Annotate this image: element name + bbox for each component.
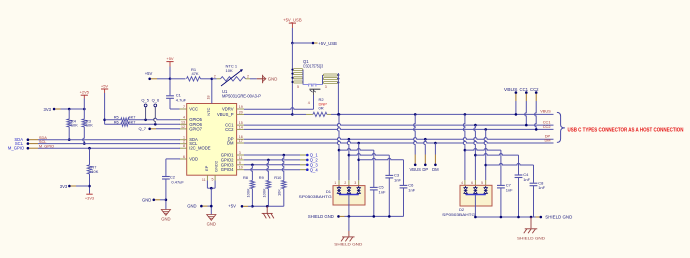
svg-text:3V3: 3V3 — [60, 184, 68, 189]
svg-text:VBUS: VBUS — [409, 167, 421, 172]
svg-text:3: 3 — [354, 181, 356, 185]
svg-text:EP: EP — [204, 165, 209, 171]
svg-text:SHIELD GND: SHIELD GND — [308, 214, 334, 219]
svg-text:SHIELD GND: SHIELD GND — [517, 236, 545, 241]
svg-text:Q_7: Q_7 — [138, 126, 146, 131]
svg-text:VDD: VDD — [189, 157, 198, 162]
svg-text:0R: 0R — [319, 106, 324, 111]
svg-text:4: 4 — [183, 116, 185, 120]
svg-text:20: 20 — [239, 110, 243, 114]
svg-text:1nF: 1nF — [538, 185, 545, 190]
svg-text:GND: GND — [268, 77, 278, 82]
svg-text:VBUS_P: VBUS_P — [217, 112, 234, 117]
svg-text:+5V: +5V — [166, 56, 174, 61]
svg-text:NTC: NTC — [206, 107, 211, 115]
svg-text:13: 13 — [181, 120, 185, 124]
svg-text:CC2: CC2 — [225, 127, 234, 132]
svg-text:11: 11 — [202, 178, 206, 182]
svg-text:1nF: 1nF — [379, 189, 386, 194]
svg-text:DP: DP — [422, 167, 428, 172]
svg-text:DM: DM — [227, 141, 234, 146]
svg-text:100K: 100K — [261, 188, 266, 197]
svg-text:+5V: +5V — [101, 84, 109, 89]
svg-text:VDRV: VDRV — [222, 107, 234, 112]
svg-text:SHIELD GND: SHIELD GND — [545, 214, 572, 219]
svg-text:CC2: CC2 — [530, 87, 539, 92]
svg-text:SHIELD GND: SHIELD GND — [334, 242, 362, 247]
svg-text:19: 19 — [239, 105, 243, 109]
svg-text:10K: 10K — [277, 189, 282, 196]
svg-text:GND: GND — [142, 197, 151, 202]
svg-text:3: 3 — [325, 85, 327, 89]
svg-text:12: 12 — [181, 125, 185, 129]
svg-text:+2V5: +2V5 — [80, 90, 90, 95]
svg-text:DM: DM — [544, 138, 550, 143]
svg-text:0.47uF: 0.47uF — [171, 179, 184, 184]
svg-text:17: 17 — [239, 139, 243, 143]
svg-text:GND: GND — [207, 222, 216, 227]
svg-text:5: 5 — [297, 85, 299, 89]
svg-text:4: 4 — [308, 101, 310, 105]
svg-text:+5V: +5V — [145, 71, 153, 76]
svg-text:DM: DM — [432, 167, 439, 172]
svg-text:VBUS: VBUS — [540, 109, 551, 114]
svg-text:+3V3: +3V3 — [85, 195, 94, 200]
svg-text:GND: GND — [187, 204, 196, 209]
svg-text:3V3: 3V3 — [44, 107, 52, 112]
svg-text:CSD17575Q3: CSD17575Q3 — [303, 63, 324, 68]
svg-text:2: 2 — [247, 74, 249, 78]
svg-text:R6: R6 — [114, 120, 119, 125]
svg-text:MP5031GRE-00A3-P: MP5031GRE-00A3-P — [222, 94, 261, 99]
svg-text:10K: 10K — [91, 169, 98, 174]
svg-text:+5V_USB: +5V_USB — [318, 41, 337, 46]
svg-text:Q_6: Q_6 — [152, 98, 160, 103]
svg-text:USB C TYPES CONNECTOR AS A HOS: USB C TYPES CONNECTOR AS A HOST CONNECTI… — [568, 128, 684, 134]
svg-text:2: 2 — [214, 74, 216, 78]
svg-text:GND: GND — [161, 217, 170, 222]
svg-text:R10: R10 — [274, 175, 282, 180]
svg-text:M_GPIO: M_GPIO — [39, 144, 54, 149]
svg-text:11: 11 — [239, 156, 243, 160]
svg-text:6: 6 — [183, 155, 185, 159]
svg-text:CC2: CC2 — [543, 124, 551, 129]
svg-text:2: 2 — [183, 140, 185, 144]
svg-text:4: 4 — [461, 181, 463, 185]
svg-text:R8: R8 — [243, 175, 248, 180]
svg-text:4K7: 4K7 — [129, 120, 136, 125]
svg-text:1nF: 1nF — [523, 177, 530, 182]
svg-text:CC1: CC1 — [520, 87, 529, 92]
svg-text:4.7uF: 4.7uF — [176, 97, 187, 102]
svg-text:+5V: +5V — [228, 203, 236, 208]
svg-text:5: 5 — [212, 178, 214, 182]
svg-text:GPIO7: GPIO7 — [189, 126, 202, 131]
svg-text:2: 2 — [344, 181, 346, 185]
svg-text:10K: 10K — [226, 68, 233, 73]
svg-text:9: 9 — [239, 161, 241, 165]
svg-text:8: 8 — [183, 144, 185, 148]
svg-text:1nF: 1nF — [394, 177, 401, 182]
svg-text:100K: 100K — [245, 188, 250, 197]
svg-text:SP0503BAHTG: SP0503BAHTG — [299, 194, 332, 199]
svg-text:1nF: 1nF — [506, 187, 513, 192]
svg-text:VCC: VCC — [189, 107, 198, 112]
svg-text:Q_4: Q_4 — [310, 167, 319, 172]
svg-text:10K: 10K — [71, 123, 78, 128]
svg-text:R9: R9 — [259, 175, 264, 180]
svg-text:1nF: 1nF — [408, 187, 415, 192]
svg-text:3: 3 — [239, 151, 241, 155]
svg-text:GPIO4: GPIO4 — [221, 167, 234, 172]
svg-text:10: 10 — [239, 166, 243, 170]
svg-text:18: 18 — [206, 96, 210, 100]
svg-text:47K: 47K — [191, 71, 198, 76]
svg-text:10K: 10K — [86, 123, 93, 128]
svg-text:1: 1 — [334, 181, 336, 185]
svg-text:I2C_MODE: I2C_MODE — [189, 146, 211, 151]
svg-text:5: 5 — [481, 181, 483, 185]
svg-text:6: 6 — [471, 181, 473, 185]
svg-text:Q_5: Q_5 — [141, 98, 149, 103]
svg-text:7: 7 — [183, 105, 185, 109]
svg-text:14: 14 — [239, 125, 243, 129]
svg-text:M_GPIO: M_GPIO — [8, 146, 25, 151]
svg-text:SP0503BAHTG: SP0503BAHTG — [442, 212, 475, 217]
svg-text:+5V_USB: +5V_USB — [283, 18, 302, 23]
svg-text:GND2: GND2 — [213, 160, 218, 172]
